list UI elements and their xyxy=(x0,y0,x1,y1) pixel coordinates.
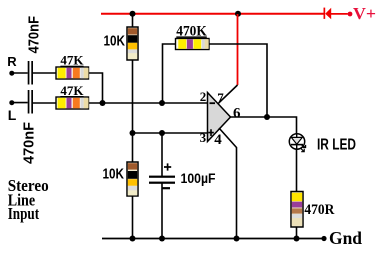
wire node D to C3 xyxy=(161,133,163,176)
svg-text:L: L xyxy=(8,107,17,123)
wire rail to R3 xyxy=(132,14,134,27)
svg-text:2: 2 xyxy=(200,89,207,104)
svg-text:470R: 470R xyxy=(304,202,334,218)
pin 2 label xyxy=(200,89,207,104)
node E output junction xyxy=(264,114,270,120)
label V+ xyxy=(353,4,376,23)
wire red vertical to pin 7 xyxy=(237,14,239,85)
node D junction (100uF joins pin3 line) xyxy=(159,130,165,136)
wire LED to R6 xyxy=(296,149,298,192)
svg-text:Input: Input xyxy=(8,204,40,223)
LED D2 IR xyxy=(289,134,305,152)
junction on rail above op-amp pin 7 xyxy=(235,11,241,17)
svg-text:47K: 47K xyxy=(60,54,83,68)
wire output pin 6 xyxy=(231,117,297,134)
label 10K (R5) xyxy=(103,166,125,183)
resistor R2 47K xyxy=(56,97,89,109)
label 100uF xyxy=(181,171,216,186)
svg-text:100µF: 100µF xyxy=(181,171,216,186)
wire 470K left lead down to node B xyxy=(163,44,176,103)
junction R5/ground xyxy=(130,236,136,242)
label 470K (R4, underlined) xyxy=(176,23,207,39)
svg-text:470nF: 470nF xyxy=(20,122,37,164)
svg-text:Gnd: Gnd xyxy=(329,228,362,248)
capacitor C2 470nF (L) xyxy=(28,90,33,114)
node B junction (feedback joins pin2 line) xyxy=(159,100,165,106)
label 470nF (L channel, vertical) xyxy=(20,122,37,164)
wire cap to R2 xyxy=(33,102,56,104)
capacitor C1 470nF (R) xyxy=(28,61,33,85)
label IR LED xyxy=(317,137,356,154)
junction on rail above 10K xyxy=(130,11,136,17)
capacitor C3 100uF electrolytic xyxy=(149,163,175,188)
node L input terminal xyxy=(8,100,17,123)
svg-text:6: 6 xyxy=(233,106,241,122)
label 470nF (R channel, vertical) xyxy=(25,16,42,54)
wire R1 to node A xyxy=(89,73,103,103)
wire R6 to ground xyxy=(296,227,298,239)
junction C3/ground xyxy=(159,236,165,242)
wire C3 to ground xyxy=(161,183,163,239)
wire R5 to ground xyxy=(132,196,134,239)
svg-text:10K: 10K xyxy=(104,32,126,49)
inverting input mark xyxy=(210,102,216,104)
resistor R1 47K xyxy=(56,67,89,79)
junction R6/ground xyxy=(294,236,300,242)
wire node C to R5 xyxy=(132,133,134,162)
svg-text:4: 4 xyxy=(214,132,222,148)
pin 6 label xyxy=(233,106,241,122)
diode D1 (supply, red) xyxy=(324,8,348,20)
V+ rail (red) xyxy=(101,13,324,15)
node Gnd terminal xyxy=(321,236,326,241)
pin 7 label xyxy=(217,90,224,105)
resistor R6 470R xyxy=(291,192,303,228)
wire R input to cap xyxy=(12,72,28,74)
wire 470K right lead to output node xyxy=(209,44,267,117)
ground rail xyxy=(102,238,324,240)
wire pin3 line xyxy=(133,132,208,134)
wire cap to R1 xyxy=(33,72,56,74)
wire pin 4 to ground xyxy=(219,128,237,239)
op-amp U1 xyxy=(208,93,231,142)
svg-text:IR LED: IR LED xyxy=(317,137,356,154)
wire R3 down through pin2 line to pin3 line xyxy=(132,60,134,133)
resistor R4 470K xyxy=(176,39,210,50)
resistor R5 10K xyxy=(127,162,138,196)
node R input terminal xyxy=(7,54,17,76)
node V+ terminal dot xyxy=(348,12,353,17)
svg-text:3: 3 xyxy=(200,130,207,145)
label Gnd xyxy=(329,228,362,248)
wire main line to pin 2 xyxy=(89,102,208,104)
non-inverting input mark xyxy=(208,129,214,136)
node C junction (divider mid on pin3 line) xyxy=(130,130,136,136)
junction pin4/ground xyxy=(234,236,240,242)
svg-text:47K: 47K xyxy=(60,84,83,98)
svg-text:R: R xyxy=(7,54,17,69)
wire pin 7 diagonal xyxy=(218,85,238,104)
label 47K (R2, underlined) xyxy=(60,84,83,98)
node A junction xyxy=(100,100,106,106)
svg-text:470K: 470K xyxy=(176,23,207,39)
label Stereo Line Input xyxy=(8,176,49,223)
label 470R xyxy=(304,202,334,218)
svg-text:470nF: 470nF xyxy=(25,16,42,54)
resistor R3 10K xyxy=(127,27,138,60)
wire L input to cap xyxy=(12,102,28,104)
pin 4 label xyxy=(214,132,222,148)
svg-text:10K: 10K xyxy=(103,166,125,183)
svg-text:V+: V+ xyxy=(353,4,376,23)
label 47K (R1, underlined) xyxy=(60,54,83,68)
label 10K (R3) xyxy=(104,32,126,49)
pin 3 label xyxy=(200,130,207,145)
